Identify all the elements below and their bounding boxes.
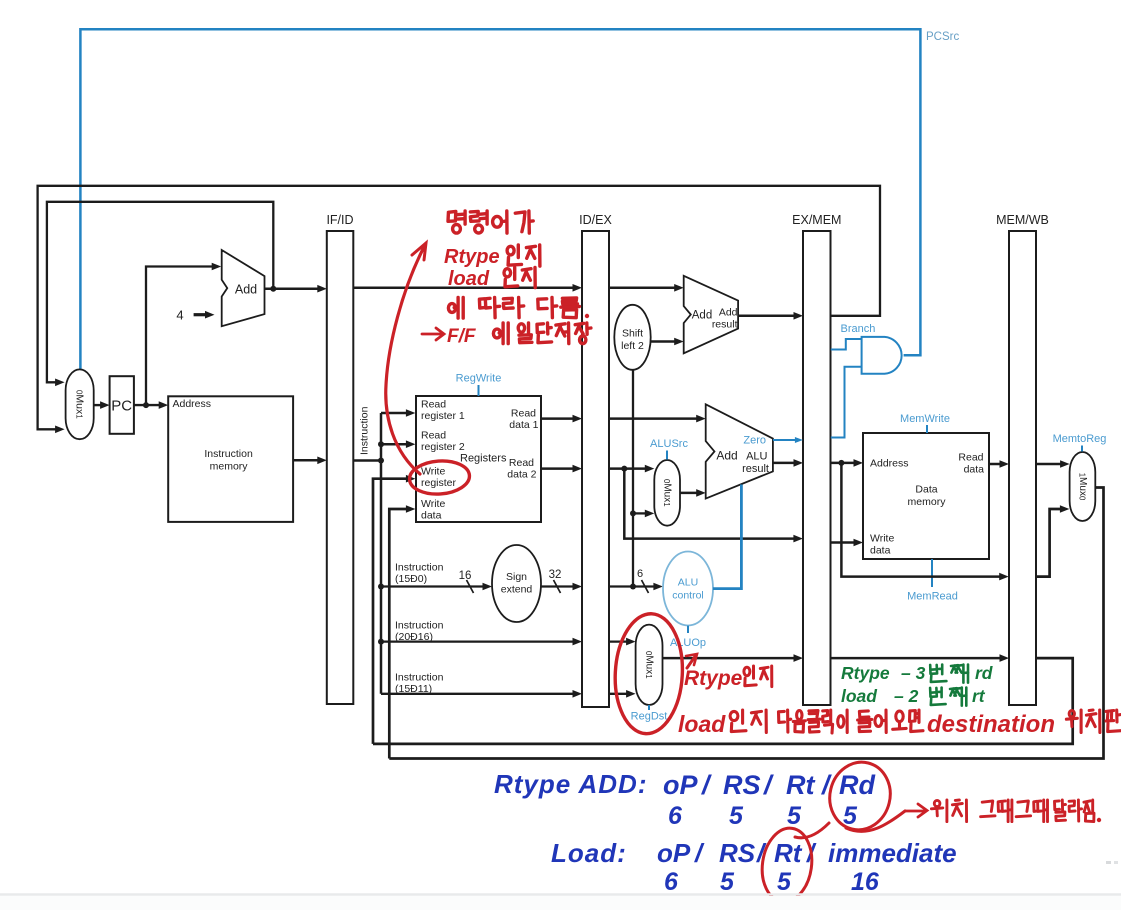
svg-text:register 1: register 1 (421, 410, 465, 422)
svg-text:EX/MEM: EX/MEM (792, 213, 841, 227)
wire PC+4 IF/ID to ID/EX (353, 287, 574, 290)
wire Branch from EX/MEM to AND gate (blue) (831, 339, 862, 350)
wire Read data 2 bypass to EX/MEM (store data) (624, 469, 794, 539)
svg-text:RegWrite: RegWrite (456, 373, 502, 385)
svg-text:Address: Address (870, 458, 909, 470)
svg-text:Read: Read (511, 408, 536, 420)
wire read data MEM/WB to write-back mux input 1 (1036, 463, 1062, 466)
svg-text:Branch: Branch (841, 323, 876, 335)
svg-text:ID/EX: ID/EX (579, 213, 612, 227)
wire ALU mux to ALU (680, 492, 698, 495)
wire Zero flag to EX/MEM (blue) (773, 439, 795, 441)
wire Instruction 15-11 ID/EX to RegDst mux input 1 (609, 693, 628, 695)
svg-text:oP: oP (657, 838, 691, 868)
svg-text:Rtype: Rtype (841, 663, 890, 683)
svg-text:Instruction: Instruction (395, 620, 444, 632)
svg-text:Load:: Load: (551, 838, 627, 868)
svg-text:IF/ID: IF/ID (326, 213, 353, 227)
svg-text:5: 5 (729, 802, 744, 830)
annotation red ellipse around Rt and 5 (load) (758, 825, 817, 905)
svg-text:load: load (448, 268, 490, 290)
wire ALU result bypass under data memory to MEM/WB (841, 463, 1000, 577)
svg-text:Address: Address (173, 398, 212, 410)
wire write-back mux output to Write data (bottom loop) (389, 488, 1103, 759)
svg-text:Instruction: Instruction (395, 672, 444, 684)
wire Instruction 20-16 ID/EX to RegDst mux input 0 (609, 640, 628, 642)
svg-text:Zero: Zero (743, 435, 766, 447)
wire shift left 2 to branch adder (651, 340, 676, 343)
memory Instruction memory (168, 396, 293, 522)
svg-text:Instruction: Instruction (395, 562, 444, 574)
svg-text:6: 6 (664, 868, 679, 896)
svg-text:Data: Data (915, 484, 937, 496)
unit Shift left 2 (614, 305, 650, 370)
wire write register number into Registers (373, 479, 407, 744)
svg-text:RS: RS (719, 838, 756, 868)
wire faint page bottom line (0, 893, 1121, 896)
svg-text:Rtype: Rtype (444, 246, 500, 268)
wire Read data 2 to ID/EX (541, 467, 574, 470)
wire funct field to ALU control (633, 585, 655, 587)
wire ALU result to EX/MEM (773, 462, 795, 465)
annotation red note line 5 (-> F/F e ildan jeojang) (422, 328, 444, 340)
svg-text:RegDst: RegDst (631, 711, 668, 723)
node faint gray dots artifact (1106, 861, 1111, 864)
wire branch target from EX/MEM back to PC mux input 1 (38, 186, 880, 429)
svg-text:Rtype: Rtype (684, 667, 743, 690)
wire ALU result EX/MEM to data memory Address (831, 462, 856, 465)
svg-text:PC: PC (111, 397, 132, 414)
svg-text:register 2: register 2 (421, 441, 465, 453)
svg-text:F/F: F/F (447, 326, 477, 347)
svg-text:Read: Read (958, 452, 983, 464)
wire write data into Registers (389, 509, 407, 759)
svg-text:5: 5 (787, 802, 802, 830)
wire ALU control to ALU (blue) (713, 485, 742, 589)
pipeline register ID/EX (582, 231, 609, 707)
svg-text:Rd: Rd (839, 770, 875, 800)
svg-text:result: result (712, 319, 738, 331)
svg-text:4: 4 (176, 308, 183, 323)
signal MemRead (blue) (931, 559, 933, 587)
svg-text:left 2: left 2 (621, 340, 644, 352)
svg-text:load: load (678, 711, 726, 737)
unit ALU control (blue) (663, 552, 713, 626)
adder Add (branch target) (684, 276, 738, 354)
svg-text:extend: extend (501, 584, 533, 596)
svg-text:Write: Write (870, 533, 894, 545)
wire instruction to Read register 2 (381, 443, 407, 446)
svg-text:oP: oP (663, 770, 698, 800)
annotation red curved arrow from Write register circle to note (386, 247, 424, 474)
wire destination register number EX/MEM to MEM/WB (831, 657, 1002, 660)
svg-text:32: 32 (549, 569, 562, 581)
alu main ALU (706, 404, 773, 498)
annotation red note line 4 (e ttara dareum.) (448, 304, 455, 313)
svg-text:PCSrc: PCSrc (926, 31, 959, 43)
wire immediate to ALU mux input 1 (633, 512, 646, 514)
annotation red note (wichi geuttae-geuttae dallajim.) (931, 806, 942, 810)
svg-text:Instruction: Instruction (359, 406, 371, 455)
svg-text:/: / (694, 838, 705, 868)
wire Add output PC+4 to IF/ID (265, 287, 319, 290)
register PC (110, 376, 134, 434)
svg-text:Rt: Rt (786, 770, 815, 800)
wire Read data 1 to ID/EX (541, 417, 574, 420)
svg-text:data: data (421, 510, 442, 522)
svg-text:5: 5 (777, 868, 792, 896)
svg-text:0Mux1: 0Mux1 (74, 390, 86, 419)
wire PC to instruction memory Address (134, 404, 160, 406)
pipeline register EX/MEM (803, 231, 831, 705)
adder Add (PC+4) (222, 250, 265, 326)
mux M3 (RegDst destination register mux) (636, 625, 663, 705)
svg-text:– 2: – 2 (894, 686, 919, 706)
wire instruction to Read register 1 (381, 412, 407, 415)
wire instruction memory to IF/ID (293, 459, 319, 462)
mux M1 (PC source mux) (66, 369, 94, 439)
annotation red connector Rd circle to Rt circle (795, 823, 829, 838)
svg-text:Add: Add (719, 307, 738, 319)
svg-text:result: result (742, 463, 769, 475)
svg-text:Shift: Shift (622, 328, 643, 340)
wire destination register number RegDst mux to EX/MEM (663, 657, 796, 660)
wire data memory Read data to MEM/WB (989, 463, 1001, 466)
svg-text:Read: Read (421, 399, 446, 411)
svg-text:ALUSrc: ALUSrc (650, 438, 688, 450)
svg-text:Read: Read (421, 430, 446, 442)
svg-text:data 1: data 1 (509, 419, 538, 431)
svg-text:– 3: – 3 (901, 663, 926, 683)
annotation red ellipse around RegDst mux (612, 612, 685, 735)
svg-text:memory: memory (210, 461, 249, 473)
svg-text:data: data (964, 464, 985, 476)
pipeline register MEM/WB (1009, 231, 1036, 705)
wire PC+4 from Add output back to PC mux input 0 (47, 202, 273, 382)
svg-text:MEM/WB: MEM/WB (996, 213, 1049, 227)
register file Registers (416, 396, 541, 522)
svg-text:rd: rd (975, 663, 993, 683)
svg-text:MemRead: MemRead (907, 591, 958, 603)
svg-text:/: / (701, 770, 712, 800)
node junction Add output (270, 286, 276, 292)
svg-text:Write: Write (421, 498, 445, 510)
wire Read data 2 ID/EX to ALU mux (609, 467, 646, 470)
signal RegDst (blue) (648, 705, 650, 710)
svg-text:immediate: immediate (828, 838, 957, 868)
svg-text:Write: Write (421, 466, 445, 478)
wire mux to PC (94, 404, 102, 406)
svg-text:Sign: Sign (506, 571, 527, 583)
svg-text:memory: memory (908, 496, 947, 508)
wire Instruction bus from IF/ID (353, 459, 381, 462)
wire ID/EX to ALU control junction (609, 585, 633, 587)
wire ALU result MEM/WB to write-back mux input 0 (1036, 509, 1061, 577)
wire PCSrc select (blue) from branch AND gate to PC mux (80, 29, 920, 369)
svg-text:Add: Add (716, 449, 737, 463)
wire sign extend output to ID/EX (541, 585, 574, 587)
svg-text:load: load (841, 686, 877, 706)
svg-text:Add: Add (235, 283, 257, 297)
wire sign-extended immediate vertical (to shift left 2 / ALU mux / ALU control) (632, 370, 634, 587)
annotation red note line 1 (Korean: myeong-ryeong-eo-ga) (448, 211, 456, 221)
memory Data memory (863, 433, 989, 559)
wire PC+4 ID/EX to branch adder (609, 287, 676, 290)
annotation red arrow to note (wichi...) (846, 811, 905, 831)
node Instruction vertical bus (380, 413, 383, 694)
svg-text:ALU: ALU (678, 577, 698, 589)
svg-text:Instruction: Instruction (204, 448, 253, 460)
wire Read data 1 ID/EX to ALU (609, 417, 698, 420)
gate AND (branch and zero, blue) (862, 337, 902, 374)
svg-text:control: control (672, 590, 704, 602)
svg-text:1Mux0: 1Mux0 (1077, 473, 1088, 501)
svg-text:6: 6 (637, 568, 643, 580)
wire Zero from EX/MEM to AND gate (blue) (831, 367, 862, 438)
unit Sign extend (492, 545, 541, 622)
svg-text:ALU: ALU (746, 451, 767, 463)
svg-text:Rtype ADD:: Rtype ADD: (494, 769, 647, 799)
svg-text:ALUOp: ALUOp (670, 637, 706, 649)
svg-text:Rt: Rt (774, 838, 803, 868)
svg-text:Add: Add (692, 309, 712, 321)
svg-text:MemtoReg: MemtoReg (1053, 433, 1107, 445)
wire store data EX/MEM to data memory Write data (831, 541, 856, 544)
svg-text:register: register (421, 477, 457, 489)
wire destination register number MEM/WB back to Write register (373, 658, 1073, 744)
pipeline register IF/ID (327, 231, 354, 704)
wire PC value up to Add input (146, 267, 213, 406)
svg-text:MemWrite: MemWrite (900, 413, 950, 425)
svg-text:16: 16 (851, 868, 880, 896)
svg-text:0Mux1: 0Mux1 (662, 479, 673, 507)
annotation red small arrow to mux output wire (687, 655, 696, 668)
svg-text:rt: rt (972, 686, 986, 706)
svg-text:0Mux1: 0Mux1 (644, 651, 655, 679)
wire branch adder output to EX/MEM (738, 315, 795, 318)
svg-text:data 2: data 2 (507, 469, 536, 481)
svg-text:16: 16 (459, 570, 472, 582)
svg-text:data: data (870, 545, 891, 557)
svg-text:6: 6 (668, 802, 683, 830)
node junction PC output (143, 402, 149, 408)
svg-text:5: 5 (720, 868, 735, 896)
svg-text:(15Ð0): (15Ð0) (395, 573, 427, 585)
mux M2 (ALU source mux) (654, 460, 680, 526)
signal ALUOp (blue) (687, 626, 689, 633)
svg-text:RS: RS (723, 770, 761, 800)
svg-text:destination: destination (927, 711, 1055, 738)
mux M4 (MemtoReg write-back mux) (1070, 452, 1096, 521)
annotation red ellipse around Write register (408, 459, 470, 496)
svg-text:Read: Read (509, 457, 534, 469)
svg-text:/: / (763, 770, 774, 800)
svg-text:Registers: Registers (460, 453, 507, 465)
annotation red ellipse around Rd and 5 (823, 756, 898, 836)
